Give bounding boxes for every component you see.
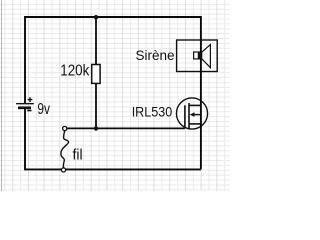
resistor R1 body: [92, 65, 100, 84]
battery BT1 plate positive: [16, 103, 34, 105]
wire top and right side: [25, 17, 201, 169]
battery BT1 plate negative: [18, 106, 31, 109]
wire gate: [67, 127, 185, 129]
node junction gate: [94, 126, 98, 130]
wire resistor branch: [95, 17, 97, 128]
grid background: [0, 0, 230, 191]
transistor U1 drain bar: [189, 104, 201, 106]
svg-text:IRL530: IRL530: [132, 104, 173, 120]
transistor U1 source bar: [189, 123, 201, 125]
left margin rule: [1, 0, 3, 191]
transistor U1 body circle: [176, 98, 207, 129]
fil squiggle wire: [61, 131, 69, 168]
speaker LS1 box: [177, 40, 218, 72]
svg-text:120k: 120k: [60, 63, 89, 80]
transistor U1 body arrow: [194, 114, 201, 116]
svg-text:fil: fil: [73, 147, 83, 163]
fil terminal bottom: [61, 168, 65, 172]
node junction top: [94, 15, 98, 19]
fil terminal top: [63, 126, 67, 130]
svg-text:9v: 9v: [37, 101, 50, 118]
speaker driver square: [194, 52, 200, 59]
transistor U1 channel bar: [188, 103, 190, 130]
svg-text:Sirène: Sirène: [136, 47, 175, 63]
speaker cone: [202, 45, 211, 68]
wire bottom and left lower: [25, 109, 201, 170]
battery minus sign: [27, 110, 31, 112]
speaker driver magnet fill: [198, 52, 202, 59]
battery plus sign: [28, 97, 33, 102]
transistor U1 gate bar: [184, 105, 186, 128]
